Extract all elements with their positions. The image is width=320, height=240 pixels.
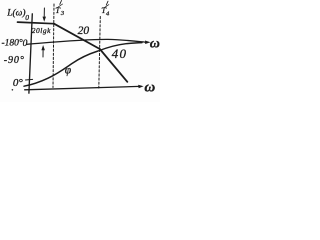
- tick at 0 degree level: [26, 78, 33, 81]
- up arrow head: [41, 45, 45, 50]
- fraction 1/T4 slash: [104, 5, 109, 9]
- svg-text:φ: φ: [65, 64, 72, 76]
- svg-text:ω: ω: [144, 79, 155, 95]
- phase curve phi: [24, 43, 142, 87]
- top omega axis arrowhead: [145, 41, 151, 45]
- bottom omega axis: [25, 86, 140, 89]
- L slope -20 dB/dec segment: [54, 24, 100, 49]
- svg-text:0: 0: [25, 13, 29, 22]
- L slope -40 dB/dec segment: [100, 49, 128, 82]
- svg-text:3: 3: [60, 10, 65, 17]
- top omega axis (0 dB line): [27, 39, 147, 44]
- svg-text:0°: 0°: [13, 77, 24, 89]
- fraction 1/T3 numerator 1: [60, 1, 62, 5]
- fraction 1/T4 numerator 1: [106, 1, 108, 5]
- svg-text:L(ω): L(ω): [6, 7, 25, 18]
- svg-text:20: 20: [78, 25, 90, 37]
- svg-text:40: 40: [112, 46, 127, 61]
- dimension arrow up (20lgk) stem: [42, 49, 44, 57]
- svg-text:-180°: -180°: [2, 38, 23, 49]
- svg-text:ω: ω: [150, 36, 160, 51]
- dashed line at 1/T4: [99, 17, 101, 89]
- down arrow head: [43, 17, 47, 22]
- bottom omega axis arrowhead: [138, 85, 143, 88]
- dimension arrow down (20lgk) stem: [43, 8, 45, 18]
- ink speck below 0 deg label: [12, 89, 14, 91]
- svg-text:0: 0: [23, 39, 28, 49]
- background: [0, 0, 160, 102]
- flat asymptote 20lgk level: [18, 22, 55, 24]
- svg-text:-90°: -90°: [4, 55, 25, 66]
- svg-text:20lgk: 20lgk: [32, 26, 51, 35]
- fraction 1/T3 slash: [57, 4, 62, 8]
- dashed line at 1/T3: [53, 4, 54, 88]
- vertical axis (shared L/phase axis): [29, 14, 32, 93]
- fraction 1/T4 denominator T4: [101, 5, 110, 17]
- fraction 1/T3 denominator T3: [55, 5, 65, 17]
